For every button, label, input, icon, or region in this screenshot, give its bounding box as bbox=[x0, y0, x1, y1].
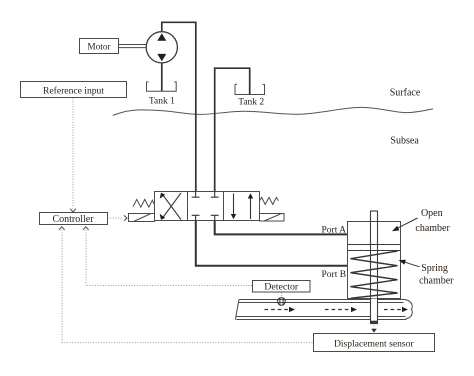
valve centre closed port A bbox=[192, 215, 200, 220]
svg-text:Port A: Port A bbox=[322, 225, 347, 235]
svg-text:Surface: Surface bbox=[390, 88, 421, 99]
valve crossed-flow arrow A to T bbox=[160, 193, 181, 220]
signal wire detector to controller bbox=[83, 227, 252, 286]
valve left proportional solenoid bbox=[129, 214, 155, 222]
svg-text:Reference input: Reference input bbox=[43, 86, 104, 97]
wire valve T port to Tank 2 bbox=[215, 68, 250, 191]
annotation arrow open chamber bbox=[392, 218, 418, 231]
pipeline rail bbox=[235, 300, 412, 320]
svg-text:chamber: chamber bbox=[415, 223, 450, 234]
reference input box bbox=[21, 82, 127, 98]
motor shaft coupling bbox=[119, 45, 147, 48]
label Open chamber bbox=[415, 208, 450, 234]
svg-text:Spring: Spring bbox=[421, 263, 448, 274]
svg-text:Controller: Controller bbox=[52, 214, 94, 225]
signal wire displacement sensor to controller bbox=[59, 227, 313, 343]
piston bbox=[348, 245, 401, 251]
svg-text:Displacement sensor: Displacement sensor bbox=[334, 338, 414, 349]
signal wire rod to displacement sensor bbox=[371, 326, 377, 333]
svg-text:Tank 2: Tank 2 bbox=[238, 98, 264, 108]
valve parallel-flow arrow down bbox=[231, 194, 236, 220]
valve crossed-flow arrow P to B bbox=[160, 193, 181, 220]
svg-text:Tank 1: Tank 1 bbox=[149, 97, 175, 107]
displacement sensor box bbox=[314, 334, 435, 352]
signal wire reference input to controller bbox=[70, 99, 76, 212]
motor M1 bbox=[80, 39, 119, 54]
valve V1 body centre position square bbox=[188, 192, 224, 221]
valve centre closed port B bbox=[211, 215, 219, 220]
valve V1 body left position square bbox=[155, 192, 188, 221]
svg-text:chamber: chamber bbox=[419, 276, 454, 287]
svg-text:Motor: Motor bbox=[87, 43, 111, 53]
valve V1 body right position square bbox=[224, 192, 260, 221]
valve centre closed port P bbox=[192, 192, 200, 198]
flow arrow 1 in pipeline bbox=[265, 307, 296, 312]
signal wire detector to probe bbox=[280, 293, 282, 297]
svg-text:Open: Open bbox=[421, 208, 443, 219]
wire pump outlet to valve P port bbox=[162, 22, 196, 191]
detector probe on pipeline bbox=[278, 297, 286, 305]
valve parallel-flow arrow up bbox=[248, 193, 253, 219]
tank T1 bbox=[147, 82, 177, 91]
tank T2 bbox=[235, 84, 265, 94]
valve right return spring bbox=[260, 197, 279, 204]
valve left return spring bbox=[133, 199, 154, 207]
wire pump suction to Tank 1 bbox=[161, 63, 163, 91]
cylinder body bbox=[348, 222, 401, 299]
piston rod bbox=[370, 211, 378, 324]
surface wavy line bbox=[113, 107, 433, 115]
detector box bbox=[253, 281, 311, 293]
spring in spring chamber bbox=[351, 251, 398, 298]
svg-text:Subsea: Subsea bbox=[390, 135, 419, 146]
wire valve B port to cylinder Port B bbox=[196, 221, 348, 266]
flow arrow 3 in pipeline bbox=[384, 307, 408, 312]
flow arrow 2 in pipeline bbox=[325, 307, 357, 312]
annotation arrow spring chamber bbox=[399, 260, 420, 267]
valve centre closed port T bbox=[211, 192, 219, 198]
controller box bbox=[40, 213, 108, 225]
label Spring chamber bbox=[419, 263, 454, 287]
svg-text:Detector: Detector bbox=[264, 282, 299, 293]
svg-text:Port B: Port B bbox=[322, 270, 347, 280]
wire valve A port to cylinder Port A bbox=[215, 221, 348, 235]
signal wire controller to valve solenoid bbox=[108, 215, 128, 220]
valve right proportional solenoid bbox=[260, 214, 285, 222]
pump P1 bbox=[146, 32, 177, 63]
